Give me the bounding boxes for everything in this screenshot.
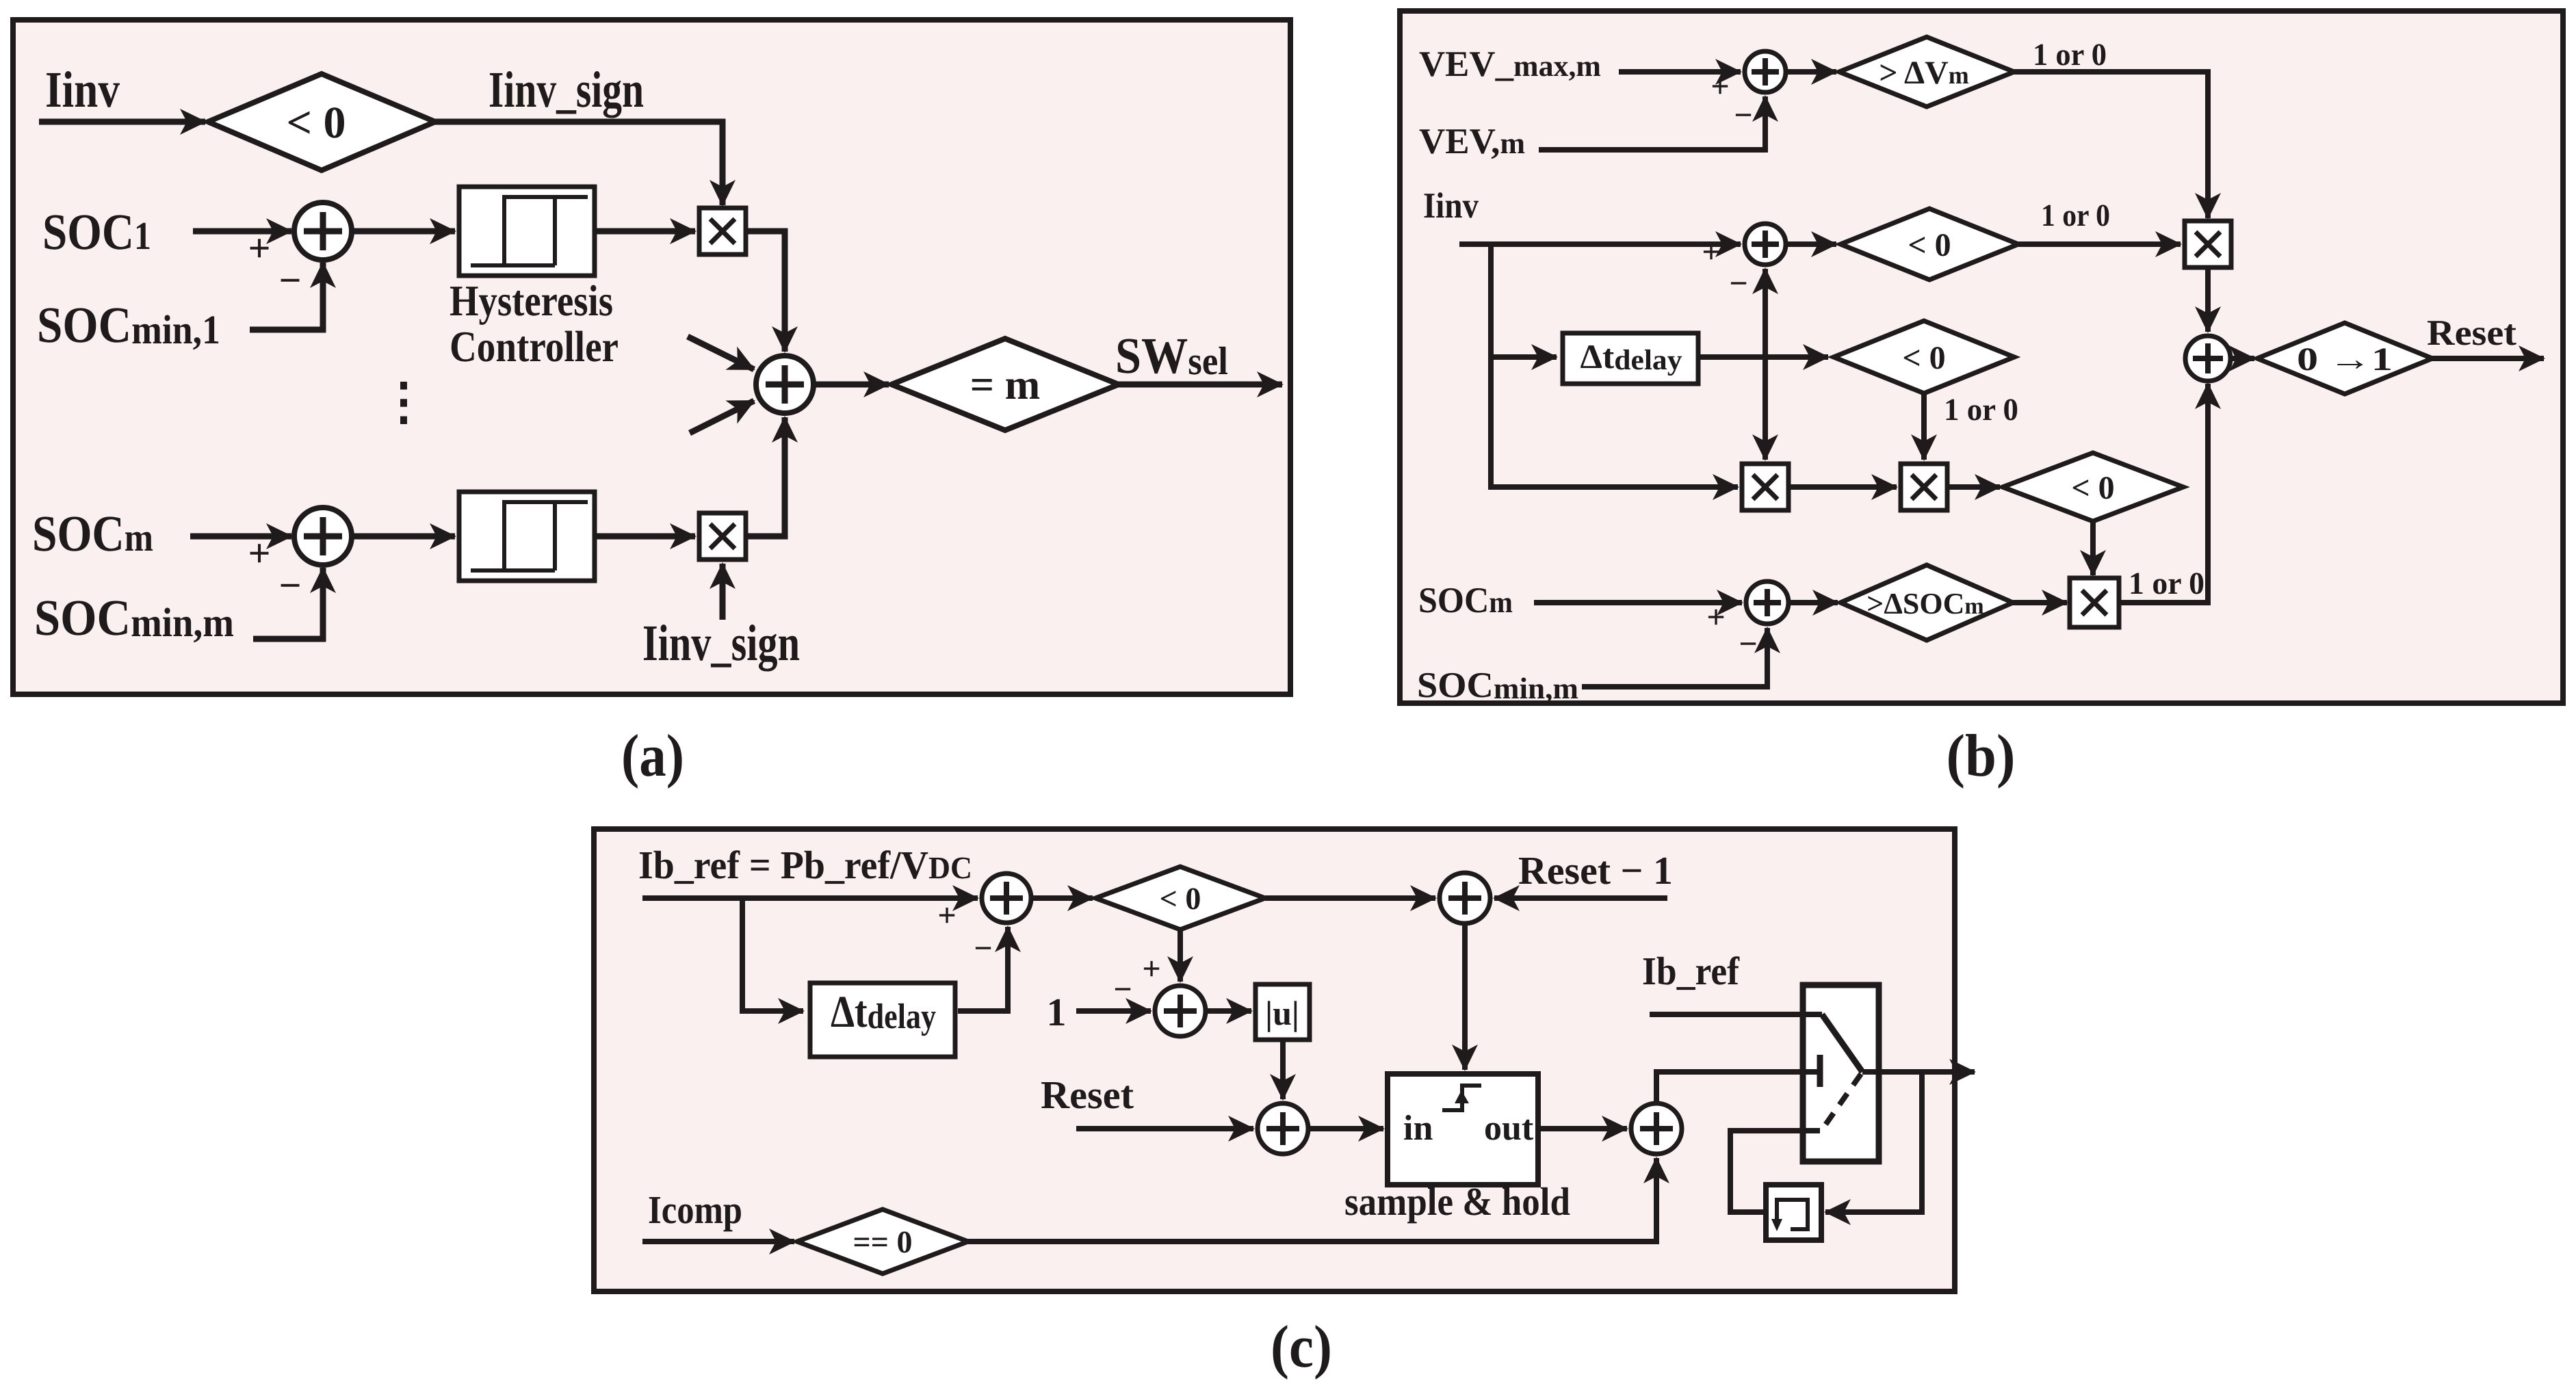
wire Ib_ref input	[642, 895, 978, 901]
svg-text:== 0: == 0	[853, 1224, 913, 1259]
wire H1 to multiplier M1	[595, 228, 695, 235]
svg-text:−: −	[1734, 97, 1752, 133]
wire diamond to C4	[1265, 895, 1435, 901]
summing junction C3	[1258, 1103, 1308, 1154]
unit delay block	[1766, 1185, 1821, 1240]
svg-text:Iinv_sign: Iinv_sign	[642, 615, 800, 672]
diagonal stub arrow upper	[688, 337, 754, 369]
svg-text:Icomp: Icomp	[648, 1187, 742, 1232]
svg-text:sample & hold: sample & hold	[1344, 1179, 1570, 1224]
wire C2 to abs block	[1206, 1008, 1251, 1014]
wire SWsel output	[1119, 382, 1282, 388]
summing junction B2	[1745, 224, 1786, 265]
wire M2 to central summer	[746, 417, 785, 536]
summing junction B4	[2185, 336, 2230, 381]
delay block Dt (c)	[810, 983, 955, 1057]
wire switch output	[1862, 1069, 1975, 1075]
summing junction C1	[982, 874, 1031, 923]
svg-text:VEV_max,m: VEV_max,m	[1419, 44, 1601, 84]
hysteresis controller block H1	[459, 187, 595, 276]
wire MBc up to summer B4	[2119, 384, 2208, 603]
comparator diamond <0 (a)	[208, 74, 435, 170]
wire SOCm input	[190, 534, 291, 540]
summing junction C5	[1631, 1103, 1682, 1154]
wire diamond down into C2	[1178, 930, 1183, 982]
multiplier MBc	[2070, 578, 2119, 627]
svg-text:+: +	[248, 531, 270, 575]
panel (a) frame	[13, 20, 1290, 694]
svg-text:|u|: |u|	[1265, 994, 1299, 1032]
svg-text:+: +	[1142, 951, 1160, 987]
comparator diamond <0 (c)	[1095, 867, 1265, 930]
panel (b) frame	[1400, 11, 2563, 703]
wire VEV_max,m input	[1619, 69, 1741, 75]
svg-text:−: −	[1729, 265, 1747, 302]
hysteresis controller block H2	[459, 492, 595, 581]
svg-text:(b): (b)	[1947, 723, 2016, 789]
wire junction up into B2 minus	[1762, 269, 1768, 357]
wire C1 to diamond <0 (c)	[1031, 895, 1093, 901]
svg-text:< 0: < 0	[1160, 881, 1201, 916]
abs block |u|	[1256, 984, 1310, 1040]
wire MBb to diamond <0 row4	[1947, 484, 2000, 490]
delay block Dt (b)	[1563, 333, 1698, 384]
wire branch into delay block (b)	[1491, 354, 1557, 360]
svg-text:= m: = m	[970, 362, 1040, 408]
svg-text:1: 1	[1047, 990, 1067, 1034]
wire C3 into sample-hold	[1308, 1126, 1383, 1131]
svg-text:in: in	[1403, 1109, 1433, 1148]
wire MB1 down to summer B4	[2205, 267, 2211, 332]
wire S1 to hysteresis block H1	[352, 228, 455, 235]
svg-text:1 or 0: 1 or 0	[2129, 566, 2204, 601]
wire Ib_ref into switch top input	[1650, 1012, 1822, 1017]
wire DSOCm to MBc	[2013, 600, 2067, 605]
wire Iinv_sign up into M2	[720, 564, 726, 620]
svg-text:0 →1: 0 →1	[2297, 341, 2393, 378]
wire H2 to multiplier M2	[595, 534, 695, 540]
comparator diamond =m	[892, 339, 1119, 430]
wire Icomp input	[642, 1239, 794, 1244]
wire Iinv input	[39, 119, 205, 125]
wire S2 to hysteresis block H2	[352, 534, 455, 540]
svg-text:−: −	[278, 258, 301, 302]
wire ==0 up into C5 bottom	[968, 1158, 1656, 1242]
svg-text:Reset: Reset	[2427, 313, 2516, 353]
multiplier MBb	[1901, 464, 1947, 510]
central summing junction S3	[756, 356, 814, 413]
panel (c) frame	[594, 829, 1955, 1291]
svg-text:< 0: < 0	[2071, 470, 2114, 506]
wire 1 into C2	[1076, 1008, 1151, 1014]
wire output branch down to unit delay	[1825, 1072, 1922, 1212]
svg-text:(a): (a)	[621, 723, 684, 789]
switch tick	[1817, 1055, 1823, 1087]
wire delay out up into C1	[958, 927, 1008, 1011]
svg-text:< 0: < 0	[1902, 340, 1945, 376]
comparator diamond ==0	[797, 1209, 968, 1274]
wire C4 down into sample-hold top	[1462, 923, 1468, 1070]
summing junction B1	[1745, 51, 1786, 92]
sample and hold block	[1388, 1074, 1538, 1185]
summing junction S1	[294, 202, 352, 260]
svg-text:< 0: < 0	[286, 98, 346, 148]
comparator diamond >DSOCm	[1840, 565, 2013, 640]
comparator diamond 0->1	[2257, 323, 2432, 394]
diagonal stub arrow lower	[690, 401, 754, 433]
comparator diamond <0 row2	[1840, 209, 2018, 280]
wire VEV,m input	[1539, 96, 1765, 150]
wire DVm to multiplier MB1	[2014, 72, 2208, 218]
wire B3 to diamond >DSOC	[1788, 600, 1838, 605]
svg-text:−: −	[278, 563, 301, 607]
wire row4 diamond down into MBc	[2090, 521, 2096, 575]
multiplier M2	[699, 513, 746, 560]
svg-text:1 or 0: 1 or 0	[1944, 392, 2018, 427]
wire unit delay out to switch bottom input	[1730, 1131, 1820, 1212]
svg-text:Reset: Reset	[1041, 1073, 1134, 1117]
switch dashed contact	[1823, 1074, 1861, 1129]
wire Reset output (b)	[2432, 356, 2544, 361]
svg-text:−: −	[1113, 971, 1132, 1008]
switch solid contact	[1822, 1014, 1862, 1072]
summing junction C4 (Reset-1)	[1440, 873, 1490, 923]
wire Iinv_sign to multiplier M1	[435, 122, 723, 205]
switch block	[1803, 985, 1879, 1161]
wire sample-hold out into C5	[1538, 1126, 1627, 1131]
wire delay out to diamond <0 row3	[1700, 354, 1828, 360]
svg-text:Reset − 1: Reset − 1	[1518, 848, 1673, 893]
wire C5 up to switch control input	[1656, 1072, 1817, 1103]
wire Iinv input (b)	[1459, 241, 1741, 247]
wire S3 to diamond =m	[814, 382, 889, 388]
wire abs down into C3	[1280, 1040, 1286, 1099]
svg-text:out: out	[1484, 1109, 1534, 1148]
summing junction C2	[1155, 986, 1206, 1036]
branch down to delay (c)	[742, 898, 803, 1011]
multiplier MB1	[2185, 221, 2231, 267]
svg-text:< 0: < 0	[1908, 227, 1951, 263]
wire M1 to central summer	[746, 231, 785, 352]
svg-text:Iinv_sign: Iinv_sign	[489, 62, 644, 118]
svg-text:⋮: ⋮	[378, 374, 429, 430]
svg-text:+: +	[1702, 234, 1720, 270]
branch Iinv down to row4	[1491, 241, 1738, 487]
wire SOCmin,m input	[253, 568, 323, 639]
svg-text:(c): (c)	[1271, 1314, 1332, 1380]
svg-text:SOCmin,m: SOCmin,m	[1417, 666, 1578, 705]
svg-text:+: +	[248, 226, 270, 270]
svg-text:−: −	[1739, 626, 1757, 662]
comparator diamond <0 row4	[2003, 453, 2183, 521]
svg-text:Iinv: Iinv	[1423, 186, 1479, 226]
svg-text:Iinv: Iinv	[45, 62, 120, 118]
svg-text:Ib_ref: Ib_ref	[1642, 949, 1740, 993]
summing junction S2	[294, 508, 352, 565]
svg-text:Controller: Controller	[450, 322, 619, 371]
wire row3 diamond down into MBb	[1921, 393, 1927, 460]
wire B1 to diamond DV	[1786, 69, 1836, 75]
svg-text:Hysteresis: Hysteresis	[450, 276, 613, 325]
wire SOC1 input	[193, 228, 291, 235]
wire SOCmin,m input (b)	[1582, 628, 1767, 687]
comparator diamond <0 row3	[1834, 321, 2014, 393]
svg-text:−: −	[974, 930, 992, 967]
svg-text:VEV,m: VEV,m	[1419, 122, 1525, 161]
wire SOCm input (b)	[1534, 600, 1742, 605]
wire B2 to diamond <0 row2	[1786, 241, 1836, 247]
wire row2 diamond to multiplier MB1	[2018, 241, 2181, 247]
svg-text:Ib_ref = Pb_ref/VDC: Ib_ref = Pb_ref/VDC	[638, 843, 972, 887]
wire junction down into multiplier MBa	[1762, 357, 1768, 460]
svg-text:+: +	[937, 897, 956, 934]
multiplier MBa	[1742, 464, 1788, 510]
wire B4 to diamond 0->1	[2230, 356, 2254, 361]
summing junction B3	[1746, 581, 1788, 624]
wire Reset into C3	[1076, 1126, 1253, 1131]
svg-text:SOCm: SOCm	[1418, 581, 1513, 620]
svg-text:+: +	[1710, 68, 1729, 105]
comparator diamond >DVm	[1839, 37, 2014, 107]
svg-text:1 or 0: 1 or 0	[2033, 37, 2107, 72]
svg-text:+: +	[1706, 599, 1725, 635]
wire MBa to MBb	[1788, 484, 1897, 490]
svg-text:1 or 0: 1 or 0	[2041, 198, 2110, 233]
multiplier M1	[699, 208, 746, 254]
wire Reset-1 into C4 from right	[1494, 895, 1667, 901]
wire SOCmin,1 input	[250, 263, 323, 330]
